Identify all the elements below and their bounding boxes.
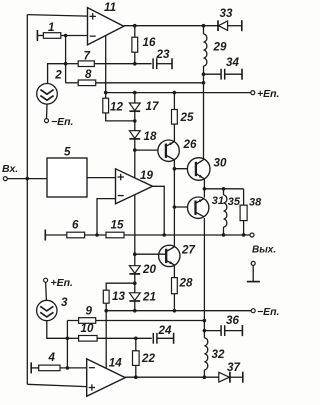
wire +Ep rail (106, 92, 251, 94)
resistor R13 (103, 290, 125, 303)
svg-text:25: 25 (180, 111, 194, 124)
wire R13 to rail (105, 303, 107, 311)
svg-text:21: 21 (142, 291, 156, 304)
wire op-amp 14 output (125, 376, 219, 378)
wire output node (204, 188, 243, 190)
svg-text:32: 32 (212, 348, 225, 361)
svg-text:1: 1 (48, 21, 54, 34)
wire C36 to stub (225, 330, 243, 332)
svg-text:13: 13 (112, 290, 125, 303)
svg-text:29: 29 (213, 41, 227, 54)
svg-text:18: 18 (144, 130, 157, 143)
svg-text:30: 30 (214, 157, 227, 170)
wire node to R10 (67, 337, 78, 339)
wire VT26 emitter rail (173, 160, 175, 246)
svg-text:19: 19 (140, 169, 153, 182)
node bootstrap (202, 81, 206, 85)
inductor L35 (224, 189, 241, 227)
node rail VD21 (133, 309, 137, 313)
op-amp U11 (88, 1, 124, 45)
wire VD18 to node (134, 139, 136, 150)
op-amp U19 (116, 169, 154, 204)
svg-text:14: 14 (109, 357, 122, 370)
terminal stub left of R4 (30, 362, 32, 373)
wire node to R8 (66, 82, 79, 84)
wire to R38 (243, 189, 245, 205)
wire -Ep rail (106, 310, 251, 312)
svg-text:36: 36 (226, 314, 239, 327)
wire feedback to op-amp 19 - input (97, 199, 116, 235)
wire stub to R6 (45, 234, 67, 236)
node R22 bottom (134, 375, 138, 379)
node R16 bottom (133, 62, 137, 66)
wire string to R13 (106, 283, 135, 290)
diode VD21 (129, 291, 156, 304)
node emitters (203, 187, 207, 191)
wire input to block 5 (7, 178, 47, 180)
wire op-amp 19 output (153, 186, 165, 235)
diode VD33 (218, 7, 233, 31)
svg-text:6: 6 (72, 219, 79, 232)
wire node to R22 (135, 338, 137, 351)
resistor R22 (133, 351, 156, 366)
wire VT27 to R28 (173, 266, 175, 278)
wire R25 to VT26 (173, 124, 175, 142)
node R16 top (133, 24, 137, 28)
wire node to R7 (66, 63, 79, 65)
wire L35 to output row (223, 227, 225, 235)
wire VT30 emitter (203, 179, 205, 188)
capacitor C23 (153, 48, 170, 69)
terminal Vyx output (250, 233, 276, 256)
node L35 bottom (222, 233, 226, 237)
node L29 bottom (202, 72, 206, 76)
wire left feedback loop vertical (26, 15, 28, 385)
wire +Ep to G3 (45, 282, 48, 300)
inductor L32 (204, 338, 225, 370)
svg-text:Вх.: Вх. (2, 163, 18, 175)
svg-text:Вых.: Вых. (252, 245, 276, 256)
svg-text:27: 27 (181, 244, 195, 257)
wire R6 to R15 (85, 234, 106, 236)
node L35 top (222, 187, 226, 191)
wire output row (124, 234, 250, 236)
capacitor C36 (221, 314, 239, 336)
node G3 join (66, 337, 70, 341)
wire C34 to stub (225, 73, 242, 75)
wire op-amp 11 output (124, 25, 218, 27)
wire R16 to node (134, 52, 136, 64)
wire rail to R25 (173, 93, 175, 110)
terminal stub VD37 (242, 372, 244, 383)
node rail R13 (104, 309, 108, 313)
terminal -Ep upper left (45, 116, 74, 128)
inductor L29 (204, 34, 227, 66)
wire VD20 to node (134, 274, 136, 283)
svg-text:31: 31 (212, 195, 224, 207)
wire op-amp 19 bottom pin (134, 195, 136, 254)
svg-text:24: 24 (158, 324, 172, 337)
node VT31 base tap (173, 205, 177, 209)
wire R10 to C24 (97, 337, 152, 339)
terminal -Ep right (251, 306, 279, 318)
wire R7 to C23 (94, 63, 151, 65)
wire C24 to stub (157, 337, 174, 339)
wire node to VD21 (134, 283, 136, 293)
resistor R8 (78, 68, 96, 86)
wire VT31 collector (203, 189, 205, 198)
node rail R12 (104, 91, 108, 95)
node VT30 base tap (173, 167, 177, 171)
wire string to op-amp 19 top pin (134, 150, 136, 178)
node feedback (95, 233, 99, 237)
resistor R15 (106, 219, 124, 238)
node R38 bottom (242, 233, 246, 237)
svg-text:9: 9 (86, 305, 93, 318)
wire VD21 to rail (134, 301, 136, 311)
diode VD20 (129, 263, 156, 276)
svg-text:+Еп.: +Еп. (257, 88, 280, 100)
transistor VT30 (187, 157, 227, 181)
resistor R1 (43, 21, 60, 38)
wire node to VD18 (134, 121, 136, 131)
op-amp U14 (87, 357, 126, 397)
node input junction (26, 177, 30, 181)
svg-text:−Еп.: −Еп. (51, 116, 74, 128)
node A4 (66, 366, 70, 370)
wire node to C36 (204, 330, 221, 332)
node string R13 (133, 281, 137, 285)
wire vertical input-divider (65, 36, 67, 83)
terminal stub C24 (173, 333, 175, 344)
wire op-amp 11 power pin (105, 36, 107, 93)
transistor VT31 (188, 195, 225, 218)
terminal common (247, 261, 260, 281)
block A5 (47, 146, 87, 198)
svg-text:3: 3 (61, 296, 68, 309)
svg-text:33: 33 (220, 7, 233, 20)
diode VD18 (129, 130, 157, 143)
svg-text:11: 11 (104, 1, 116, 14)
node C36 tap (203, 329, 207, 333)
terminal stub VD33 (241, 20, 243, 31)
wire to R16 (134, 26, 136, 38)
wire VD17 to node (134, 111, 136, 121)
wire C23 to stub (157, 63, 172, 65)
wire pin to VD20 (134, 254, 136, 266)
node L32 bottom (203, 375, 207, 379)
node op-amp 19 out (162, 233, 166, 237)
wire stub to R1 (37, 35, 43, 37)
wire R4 to op-amp 14 - input (60, 367, 87, 369)
wire R12 to string (106, 113, 135, 121)
terminal +Ep lower left (44, 277, 73, 289)
wire VT27 base (135, 253, 166, 255)
node rail R25 (173, 91, 177, 95)
resistor R4 (39, 351, 60, 371)
svg-text:38: 38 (249, 197, 262, 209)
wire R8 to bootstrap node (96, 82, 204, 84)
resistor R10 (79, 322, 98, 341)
svg-text:7: 7 (84, 50, 91, 63)
current source G2 (37, 69, 63, 105)
wire rail to R12 (105, 93, 107, 99)
wire VT26 base (135, 149, 166, 151)
svg-text:4: 4 (48, 351, 56, 364)
wire VD37 to stub (230, 376, 243, 378)
wire R38 to output row (243, 221, 245, 235)
svg-text:35: 35 (228, 196, 241, 208)
wire loop to op-amp 14 + input (27, 384, 86, 386)
node rail R28 (173, 309, 177, 313)
wire op-amp 14 power pin (105, 311, 107, 369)
wire R28 to -Ep rail (173, 294, 175, 311)
svg-text:+Еп.: +Еп. (51, 277, 74, 289)
svg-text:10: 10 (81, 322, 94, 335)
resistor R28 (172, 277, 193, 294)
input terminal Vx (2, 163, 18, 181)
wire divider vertical lower (66, 321, 68, 368)
svg-text:5: 5 (64, 146, 71, 159)
wire R1 to op-amp 11 - input (61, 35, 88, 37)
wire stub to R4 (31, 367, 39, 369)
wire VD33 to stub (228, 25, 242, 27)
svg-text:2: 2 (54, 69, 62, 82)
node VT26 base (133, 148, 137, 152)
wire bootstrap to VT30 collector (203, 74, 205, 159)
resistor R38 (240, 197, 262, 221)
transistor VT26 (158, 138, 197, 161)
resistor R6 (67, 219, 85, 238)
wire input loop to op-amp 11 + input (27, 15, 87, 17)
wire L29 to node (203, 66, 205, 74)
terminal stub left of R6 (44, 230, 46, 241)
wire node to C34 (204, 73, 222, 75)
wire G2 top lead (48, 64, 66, 84)
wire R22 to output line (135, 365, 137, 377)
node string R12 (133, 119, 137, 123)
wire rail end to C36 node (203, 321, 205, 338)
node VT27 base (133, 252, 137, 256)
resistor R7 (78, 50, 94, 67)
capacitor C34 (221, 56, 239, 80)
svg-text:−Еп.: −Еп. (257, 306, 280, 318)
svg-text:8: 8 (85, 68, 92, 81)
node R22 top (134, 337, 138, 341)
svg-text:34: 34 (226, 56, 239, 69)
svg-text:17: 17 (146, 100, 159, 113)
diode VD37 (219, 361, 241, 383)
svg-text:16: 16 (143, 36, 156, 49)
svg-text:20: 20 (142, 263, 156, 276)
wire L32 to output line (203, 370, 205, 377)
current source G3 (37, 296, 68, 321)
wire VT31 base (174, 206, 195, 208)
terminal stub C36 (241, 325, 243, 336)
node L29 top (202, 24, 206, 28)
svg-text:12: 12 (110, 101, 123, 114)
svg-text:15: 15 (111, 219, 124, 232)
node rail VD17 (133, 91, 137, 95)
transistor VT27 (159, 244, 196, 267)
resistor R9 (79, 305, 96, 324)
resistor R16 (132, 36, 156, 52)
terminal +Ep right (251, 88, 280, 100)
resistor R12 (103, 98, 124, 113)
wire R9 rail (67, 320, 204, 322)
node A1 (64, 34, 68, 38)
wire G3 to node (47, 321, 68, 339)
svg-text:37: 37 (227, 361, 240, 374)
wire VT30 base (174, 168, 196, 170)
terminal stub left of R1 (36, 30, 38, 41)
terminal stub C23 (171, 58, 173, 69)
terminal stub C34 (241, 69, 243, 80)
resistor R25 (172, 110, 194, 125)
wire VT31 emitter long (203, 218, 205, 321)
node R9 rail end (203, 319, 207, 323)
svg-text:26: 26 (183, 138, 197, 151)
svg-text:23: 23 (156, 48, 170, 61)
node A2 (64, 62, 68, 66)
capacitor C24 (153, 324, 172, 344)
svg-text:22: 22 (141, 352, 155, 365)
svg-text:28: 28 (179, 277, 193, 290)
diode VD17 (129, 100, 159, 113)
wire rail to VD17 (134, 93, 136, 103)
wire to L29 (203, 26, 205, 34)
wire G2 to -Ep terminal (46, 104, 49, 119)
wire block5 to op-amp 19 + input (87, 177, 116, 179)
